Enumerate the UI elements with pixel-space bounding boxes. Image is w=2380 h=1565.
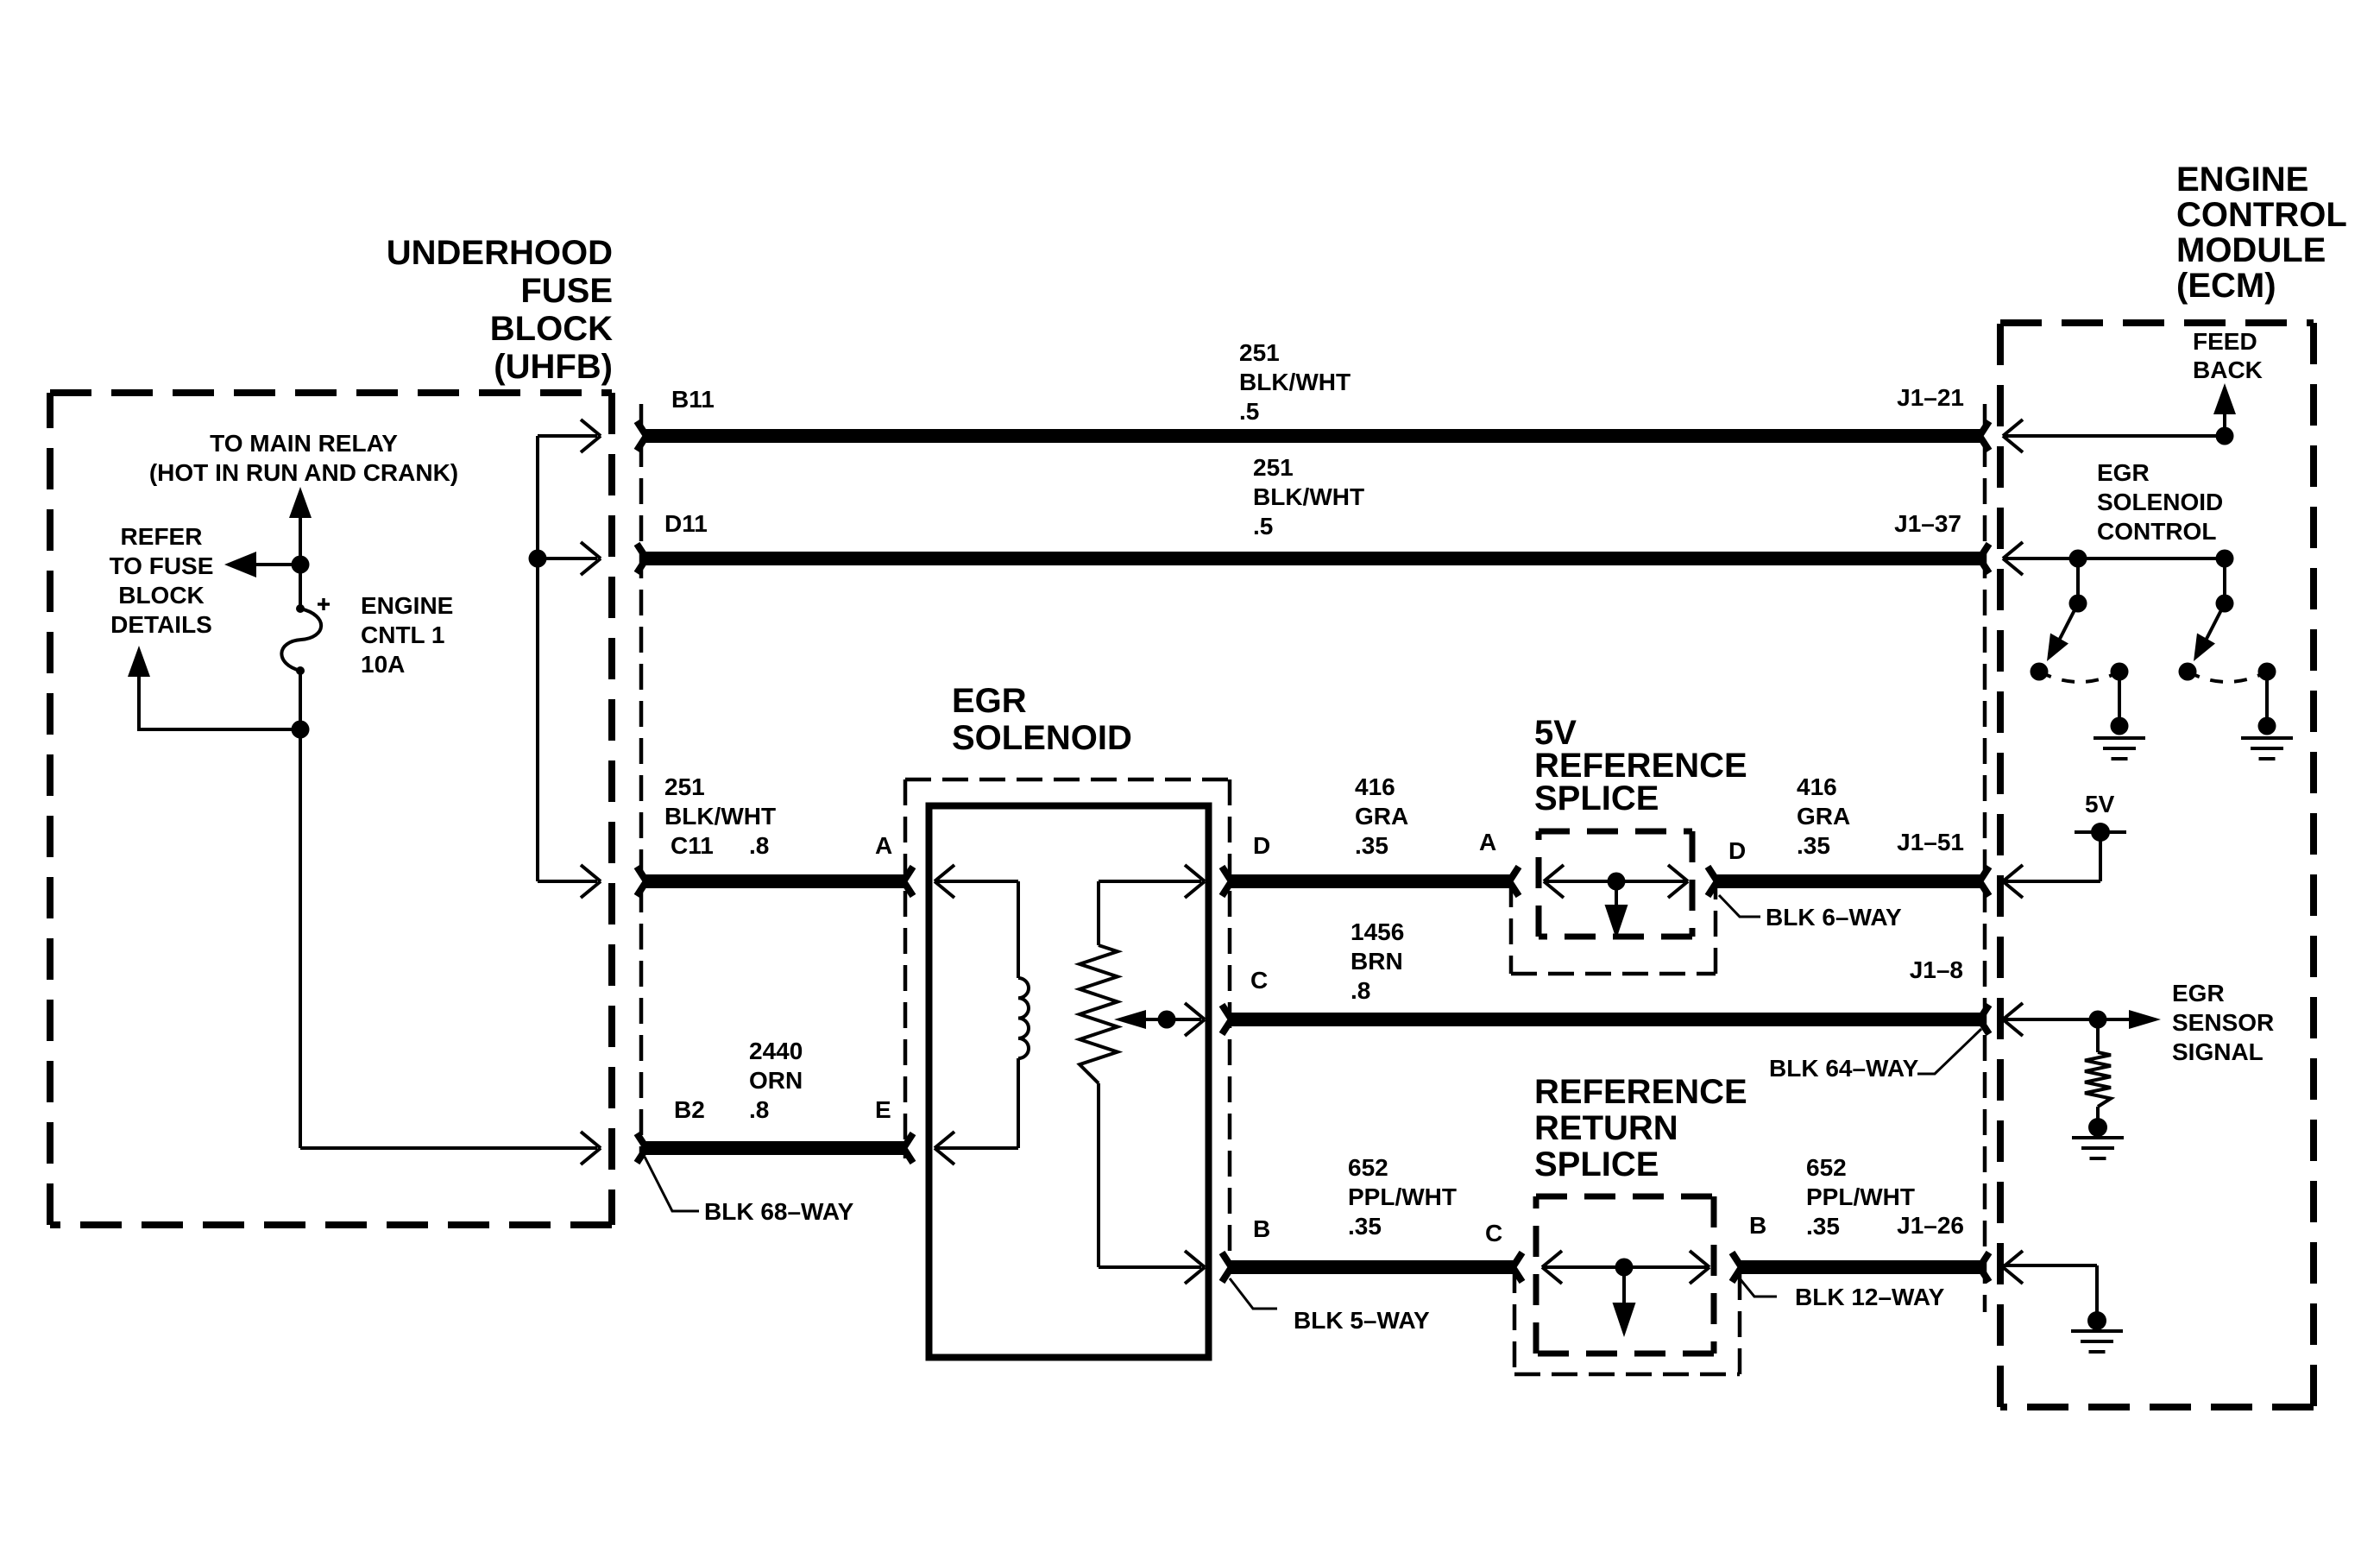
EGR solenoid solid box <box>929 806 1209 1358</box>
reference return splice title <box>1534 1073 1747 1183</box>
EGR solenoid terminal A arrow <box>935 865 954 898</box>
svg-text:D11: D11 <box>664 510 708 537</box>
return splice down arrowhead <box>1613 1303 1636 1337</box>
svg-text:REFERENCE: REFERENCE <box>1534 1073 1747 1111</box>
arrow EGR sensor signal <box>2129 1010 2161 1029</box>
node fuse top junction <box>292 556 310 574</box>
wire fuse bottom to lower junction <box>299 671 302 729</box>
node control right junction <box>2216 550 2234 568</box>
arrow up to fuse block details <box>128 646 150 677</box>
5V splice down arrowhead <box>1605 905 1628 939</box>
svg-text:GRA: GRA <box>1797 803 1850 830</box>
fuse ENGINE CNTL 1 10A symbol <box>281 598 330 675</box>
svg-text:.35: .35 <box>1797 832 1830 859</box>
ECM J1-26 input arrow <box>2003 1251 2023 1284</box>
ECM connector face dashed line <box>1983 404 1987 1312</box>
svg-text:UNDERHOOD: UNDERHOOD <box>387 234 613 272</box>
wire label 2440 ORN .8 <box>749 1038 803 1123</box>
wire right switch stub <box>2223 558 2226 603</box>
svg-text:D: D <box>1728 837 1746 864</box>
svg-text:BLOCK: BLOCK <box>490 310 613 348</box>
svg-text:SIGNAL: SIGNAL <box>2172 1038 2264 1065</box>
5V supply node bar <box>2075 830 2126 834</box>
svg-text:CNTL 1: CNTL 1 <box>361 622 445 648</box>
svg-text:.35: .35 <box>1348 1213 1382 1240</box>
wire left switch stub <box>2076 558 2080 603</box>
wire label 251 BLK/WHT .5 upper <box>1239 339 1351 425</box>
svg-text:652: 652 <box>1806 1154 1847 1181</box>
node feedback junction <box>2216 427 2234 445</box>
wire label 416 GRA .35 left <box>1355 773 1408 859</box>
node left switch contact B <box>2111 663 2129 681</box>
svg-text:J1–26: J1–26 <box>1897 1212 1964 1239</box>
reference return splice inner dashed box <box>1536 1196 1714 1354</box>
svg-text:(HOT IN RUN AND CRANK): (HOT IN RUN AND CRANK) <box>149 459 458 486</box>
svg-text:BLK 12–WAY: BLK 12–WAY <box>1795 1284 1945 1310</box>
wire J1-37 control line <box>2003 557 2225 560</box>
label ENGINE CNTL 1 10A <box>361 592 453 678</box>
underhood fuse block UHFB dashed box <box>50 393 612 1225</box>
svg-text:BLK/WHT: BLK/WHT <box>1239 369 1351 395</box>
wire label 416 GRA .35 right <box>1797 773 1850 859</box>
wire 251 BLK/WHT .8 (C11 to EGR solenoid A) <box>637 867 913 896</box>
return splice wire <box>1542 1265 1709 1269</box>
wire branch to D11 <box>538 557 597 560</box>
wiper arm to terminal C <box>1146 1018 1201 1021</box>
node control left junction <box>2069 550 2087 568</box>
EGR solenoid coil winding <box>1018 978 1029 1058</box>
svg-text:B: B <box>1253 1215 1270 1242</box>
svg-text:ENGINE: ENGINE <box>2176 161 2308 199</box>
wire label 251 BLK/WHT .5 lower <box>1253 454 1364 540</box>
svg-text:.35: .35 <box>1806 1213 1840 1240</box>
svg-text:C: C <box>1250 967 1268 994</box>
svg-text:J1–51: J1–51 <box>1897 829 1964 855</box>
svg-text:10A: 10A <box>361 651 405 678</box>
svg-text:BLK 6–WAY: BLK 6–WAY <box>1766 904 1902 931</box>
svg-text:5V: 5V <box>2085 791 2115 817</box>
svg-text:SOLENOID: SOLENOID <box>2097 489 2223 515</box>
svg-text:2440: 2440 <box>749 1038 803 1064</box>
UHFB connector face dashed line <box>639 404 644 1157</box>
node resistor ground dot <box>2088 1118 2107 1137</box>
svg-text:SPLICE: SPLICE <box>1534 779 1659 817</box>
wire resistor top to D <box>1099 881 1201 945</box>
wire label 652 PPL/WHT .35 left <box>1348 1154 1457 1240</box>
svg-text:.8: .8 <box>749 1096 769 1123</box>
svg-text:J1–21: J1–21 <box>1897 384 1964 411</box>
svg-text:BLK/WHT: BLK/WHT <box>664 803 776 830</box>
ground right switch <box>2241 738 2293 759</box>
EGR position sensor resistor <box>1080 945 1118 1083</box>
5V splice stub down <box>1615 881 1618 908</box>
wire 251 BLK/WHT .5 (B11 to J1-21) <box>637 421 1989 451</box>
svg-text:251: 251 <box>1253 454 1294 481</box>
return splice stub down <box>1622 1267 1626 1306</box>
5V reference splice outer connector dashed box <box>1511 881 1716 974</box>
wire J1-8 sensor line <box>2003 1018 2129 1021</box>
wire 1456 BRN .8 (C to J1-8) <box>1222 1005 1989 1034</box>
leader BLK 12-WAY <box>1735 1273 1777 1297</box>
reference return splice outer connector dashed box <box>1514 1267 1740 1374</box>
ground J1-26 return <box>2071 1331 2123 1352</box>
5V reference splice title <box>1534 714 1747 817</box>
EGR solenoid connector dashed outline <box>905 779 1230 1256</box>
arrow into connector B2 <box>581 1132 601 1164</box>
svg-text:CONTROL: CONTROL <box>2097 518 2216 545</box>
wire 251 BLK/WHT .5 (D11 to J1-37) <box>637 544 1989 573</box>
svg-text:DETAILS: DETAILS <box>110 611 212 638</box>
wire resistor to ground dot <box>2096 1107 2100 1122</box>
svg-text:B: B <box>1749 1212 1766 1239</box>
svg-text:EGR: EGR <box>2097 459 2150 486</box>
svg-text:BLK 64–WAY: BLK 64–WAY <box>1769 1055 1919 1082</box>
arrow refer to fuse block details <box>224 552 256 577</box>
svg-text:B2: B2 <box>674 1096 705 1123</box>
return splice right arrow <box>1690 1251 1709 1284</box>
node right switch contact A <box>2179 663 2197 681</box>
node right ground dot <box>2258 717 2276 735</box>
wire feedback stub <box>2223 413 2226 436</box>
svg-text:TO MAIN RELAY: TO MAIN RELAY <box>210 430 398 457</box>
left switch dashed arc <box>2039 672 2119 682</box>
svg-text:.5: .5 <box>1253 513 1273 540</box>
leader BLK 5-WAY <box>1230 1278 1277 1309</box>
node left switch contact A <box>2031 663 2049 681</box>
svg-text:J1–8: J1–8 <box>1910 956 1963 983</box>
svg-text:GRA: GRA <box>1355 803 1408 830</box>
ECM J1-51 output arrow <box>2003 865 2023 898</box>
svg-text:FEED: FEED <box>2193 328 2257 355</box>
wire label 1456 BRN .8 <box>1351 918 1404 1004</box>
wire fuse top to main relay <box>299 516 302 566</box>
node sensor junction <box>2089 1011 2107 1029</box>
wire A to coil <box>936 881 1018 978</box>
svg-text:A: A <box>1479 829 1496 855</box>
svg-text:RETURN: RETURN <box>1534 1109 1678 1147</box>
svg-text:652: 652 <box>1348 1154 1388 1181</box>
wire label 652 PPL/WHT .35 right <box>1806 1154 1915 1240</box>
node left ground dot <box>2111 717 2129 735</box>
svg-text:EGR: EGR <box>2172 980 2225 1007</box>
svg-text:(ECM): (ECM) <box>2176 267 2276 305</box>
svg-text:E: E <box>875 1096 891 1123</box>
svg-text:FUSE: FUSE <box>520 272 613 310</box>
EGR solenoid terminal E arrow <box>935 1132 954 1164</box>
node left switch pivot <box>2069 595 2087 613</box>
wire J1-21 to feedback node <box>2003 434 2225 438</box>
wire J1-26 to ground <box>2003 1265 2097 1316</box>
svg-text:D: D <box>1253 832 1270 859</box>
arrow into connector B11 <box>581 420 601 452</box>
svg-text:CONTROL: CONTROL <box>2176 196 2347 234</box>
label TO MAIN RELAY (HOT IN RUN AND CRANK) <box>149 430 458 486</box>
wire UHFB right rail <box>538 436 597 881</box>
node fuse output junction <box>292 721 310 739</box>
node 5V supply <box>2091 823 2110 842</box>
svg-text:MODULE: MODULE <box>2176 231 2326 269</box>
wire 416 GRA .35 (D to splice A) <box>1222 867 1519 896</box>
svg-text:.5: .5 <box>1239 398 1259 425</box>
svg-text:251: 251 <box>1239 339 1280 366</box>
svg-text:PPL/WHT: PPL/WHT <box>1348 1183 1457 1210</box>
node return splice junction <box>1615 1259 1634 1277</box>
ECM pull-down resistor <box>2085 1052 2111 1107</box>
svg-text:EGR: EGR <box>952 682 1027 720</box>
svg-text:BACK: BACK <box>2193 357 2263 383</box>
underhood fuse block title <box>387 234 613 386</box>
leader BLK 68-WAY <box>645 1157 699 1211</box>
return splice left arrow <box>1542 1251 1562 1284</box>
svg-text:C: C <box>1485 1220 1502 1246</box>
wire 652 PPL/WHT .35 (B to splice C) <box>1222 1253 1522 1282</box>
node J1-26 ground dot <box>2087 1311 2106 1330</box>
svg-text:(UHFB): (UHFB) <box>494 348 613 386</box>
svg-text:ENGINE: ENGINE <box>361 592 453 619</box>
ECM J1-8 input arrow <box>2003 1003 2023 1036</box>
left driver switch arrow <box>2047 603 2078 661</box>
EGR solenoid terminal C arrow <box>1185 1003 1205 1036</box>
ground sensor resistor <box>2072 1138 2124 1158</box>
EGR solenoid title <box>952 682 1132 757</box>
svg-text:A: A <box>875 832 892 859</box>
wire 416 GRA .35 (splice D to J1-51) <box>1708 867 1989 896</box>
svg-text:REFER: REFER <box>121 523 203 550</box>
label FEED BACK <box>2193 328 2263 383</box>
ECM J1-37 input arrow <box>2003 542 2023 575</box>
svg-text:416: 416 <box>1797 773 1837 800</box>
right driver switch arrow <box>2194 603 2225 661</box>
node wiper junction <box>1158 1011 1176 1029</box>
wire branch to C11 <box>538 880 597 883</box>
EGR solenoid terminal D arrow <box>1185 865 1205 898</box>
5V splice right arrow <box>1668 865 1688 898</box>
svg-text:BRN: BRN <box>1351 948 1403 975</box>
svg-text:ORN: ORN <box>749 1067 803 1094</box>
wire to fuse-block-details arrow <box>139 675 300 731</box>
node right rail D11 junction <box>529 550 547 568</box>
svg-text:251: 251 <box>664 773 705 800</box>
arrow to main relay <box>289 487 312 518</box>
ground left switch <box>2094 738 2145 759</box>
arrow into connector C11 <box>581 865 601 898</box>
label EGR SENSOR SIGNAL <box>2172 980 2274 1065</box>
svg-text:BLK/WHT: BLK/WHT <box>1253 483 1364 510</box>
svg-text:BLK 5–WAY: BLK 5–WAY <box>1294 1307 1430 1334</box>
svg-text:SPLICE: SPLICE <box>1534 1145 1659 1183</box>
node right switch pivot <box>2216 595 2234 613</box>
wiper arrowhead <box>1114 1010 1146 1029</box>
wire 2440 ORN .8 (B2 to EGR solenoid E) <box>637 1133 913 1163</box>
ECM J1-21 input arrow <box>2003 420 2023 452</box>
svg-text:C11: C11 <box>671 832 714 859</box>
node 5V splice junction <box>1608 873 1626 891</box>
EGR solenoid terminal B arrow <box>1185 1251 1205 1284</box>
svg-text:J1–37: J1–37 <box>1894 510 1961 537</box>
label REFER TO FUSE BLOCK DETAILS <box>110 523 214 638</box>
svg-text:.35: .35 <box>1355 832 1388 859</box>
wire right switch to ground <box>2265 672 2269 726</box>
svg-text:1456: 1456 <box>1351 918 1404 945</box>
wire label 251 BLK/WHT .8 <box>664 773 776 859</box>
5V splice left arrow <box>1544 865 1564 898</box>
arrow feedback <box>2213 383 2236 414</box>
arrow into connector D11 <box>581 542 601 575</box>
svg-text:TO FUSE: TO FUSE <box>110 552 214 579</box>
engine control module title <box>2176 161 2347 305</box>
svg-text:SOLENOID: SOLENOID <box>952 719 1132 757</box>
svg-text:B11: B11 <box>671 386 715 413</box>
label EGR SOLENOID CONTROL <box>2097 459 2223 545</box>
wire junction to fuse <box>299 565 302 608</box>
leader BLK 6-WAY <box>1719 895 1760 917</box>
wire left switch to ground <box>2118 672 2121 726</box>
wire coil to E <box>936 1058 1018 1148</box>
wire to refer-to-fuse-block arrow <box>256 563 300 566</box>
wire sensor to pullup resistor <box>2096 1019 2100 1052</box>
svg-text:SENSOR: SENSOR <box>2172 1009 2274 1036</box>
5V splice wire <box>1544 880 1688 883</box>
svg-text:.8: .8 <box>749 832 769 859</box>
svg-text:416: 416 <box>1355 773 1395 800</box>
svg-text:.8: .8 <box>1351 977 1370 1004</box>
node right switch contact B <box>2258 663 2276 681</box>
5V reference splice inner dashed box <box>1539 831 1692 937</box>
wire resistor bottom to B <box>1099 1083 1201 1267</box>
wire 652 PPL/WHT .35 (splice B to J1-26) <box>1732 1253 1989 1282</box>
engine control module ECM dashed box <box>2000 323 2314 1407</box>
svg-text:BLK 68–WAY: BLK 68–WAY <box>704 1198 854 1225</box>
wire 5V to J1-51 <box>2003 832 2100 881</box>
leader BLK 64-WAY <box>1917 1029 1981 1074</box>
svg-text:BLOCK: BLOCK <box>118 582 205 609</box>
svg-text:PPL/WHT: PPL/WHT <box>1806 1183 1915 1210</box>
wire fuse output down to B2 row <box>300 729 597 1148</box>
right switch dashed arc <box>2188 672 2267 682</box>
